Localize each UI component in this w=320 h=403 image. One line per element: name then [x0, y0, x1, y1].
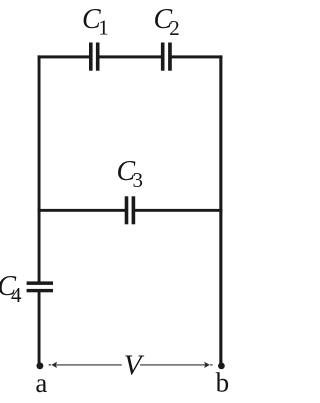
capacitor C1	[89, 43, 100, 71]
svg-text:4: 4	[11, 283, 22, 307]
label C2	[154, 4, 180, 40]
svg-text:3: 3	[133, 168, 144, 192]
arrow line right	[140, 364, 205, 366]
wire left vertical lower segment	[38, 291, 41, 366]
wire middle rail left segment	[38, 209, 126, 212]
capacitor C2	[161, 43, 172, 71]
wire top rail middle segment	[99, 55, 161, 58]
label C1	[82, 4, 109, 40]
capacitor C4	[27, 281, 53, 292]
svg-text:b: b	[216, 368, 230, 398]
wire top rail left segment	[38, 55, 90, 58]
arrow head left	[51, 362, 57, 368]
svg-text:1: 1	[98, 16, 109, 40]
wire top rail right segment	[171, 55, 222, 58]
arrow dash left	[49, 364, 52, 366]
node b dot	[218, 363, 225, 370]
wire middle rail right segment	[135, 209, 223, 212]
label C3	[117, 156, 144, 192]
arrow head right	[204, 362, 210, 368]
svg-text:2: 2	[169, 16, 180, 40]
wire left vertical upper segment	[38, 55, 41, 283]
capacitor C3	[125, 196, 136, 224]
node a dot	[36, 362, 43, 369]
arrow dash right	[210, 364, 213, 366]
wire right vertical	[219, 55, 222, 366]
arrow line left	[56, 364, 122, 366]
label C4	[0, 271, 22, 307]
svg-text:a: a	[35, 368, 47, 398]
